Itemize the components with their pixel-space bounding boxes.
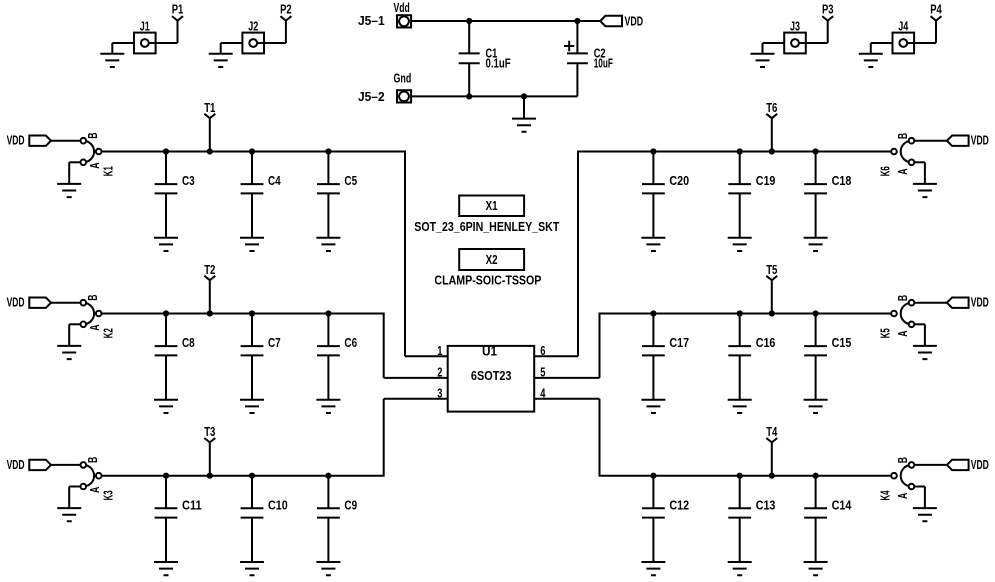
svg-text:T2: T2: [204, 263, 215, 277]
svg-text:J5–1: J5–1: [358, 14, 385, 28]
svg-text:A: A: [88, 325, 102, 331]
wire pin2: [384, 377, 448, 379]
wire: [914, 302, 947, 304]
junction: [769, 473, 775, 479]
svg-text:K5: K5: [879, 328, 893, 338]
wire bus K5: [600, 314, 892, 378]
wire Gnd return: [411, 95, 577, 97]
svg-text:C10: C10: [268, 498, 288, 512]
wire: [924, 487, 926, 508]
svg-text:A: A: [88, 487, 102, 493]
svg-text:B: B: [896, 133, 910, 139]
junction: [574, 18, 580, 24]
connector J4: [893, 20, 915, 54]
svg-text:0.1uF: 0.1uF: [486, 56, 511, 70]
ground: [57, 184, 81, 197]
wire: [762, 43, 764, 54]
ground: [804, 238, 828, 251]
connector pad J5-1: [358, 1, 411, 28]
wire: [914, 486, 925, 488]
switch K5: [879, 295, 915, 338]
junction: [466, 18, 472, 24]
svg-text:P1: P1: [172, 3, 184, 17]
svg-text:C12: C12: [669, 498, 689, 512]
svg-text:VDD: VDD: [7, 296, 25, 310]
svg-text:C3: C3: [182, 174, 195, 188]
svg-text:SOT_23_6PIN_HENLEY_SKT: SOT_23_6PIN_HENLEY_SKT: [414, 220, 559, 234]
svg-text:VDD: VDD: [971, 134, 989, 148]
wire: [871, 42, 893, 44]
svg-text:J5–2: J5–2: [358, 90, 385, 104]
junction: [163, 148, 169, 154]
test point T3: [204, 425, 215, 476]
svg-text:C8: C8: [182, 336, 195, 350]
junction: [325, 148, 331, 154]
svg-text:T5: T5: [766, 263, 777, 277]
IC U1: [448, 345, 535, 412]
wire bus K2: [102, 314, 384, 378]
wire pin5: [534, 377, 599, 379]
wire: [257, 42, 286, 44]
svg-text:C7: C7: [268, 336, 281, 350]
svg-text:K1: K1: [101, 166, 115, 176]
wire pin3: [384, 398, 448, 400]
socket X1: [459, 196, 524, 217]
wire bus K3: [102, 399, 384, 476]
svg-text:VDD: VDD: [7, 134, 25, 148]
switch K4: [879, 457, 915, 501]
VDD flag for K5: [947, 296, 989, 310]
svg-text:C13: C13: [756, 498, 776, 512]
wire: [68, 487, 70, 508]
ground: [316, 562, 340, 575]
capacitor C2 (polarized): [564, 21, 613, 96]
wire: [220, 43, 222, 54]
junction: [325, 310, 331, 316]
wire bus K6: [578, 152, 891, 357]
ground: [728, 400, 752, 413]
svg-text:C16: C16: [756, 336, 776, 350]
junction: [163, 310, 169, 316]
ground: [512, 119, 536, 132]
capacitor C16: [728, 314, 775, 400]
svg-text:A: A: [896, 169, 910, 175]
junction: [249, 473, 255, 479]
svg-text:K3: K3: [101, 490, 115, 500]
junction: [813, 310, 819, 316]
svg-text:P2: P2: [280, 3, 292, 17]
capacitor C20: [642, 152, 689, 238]
wire: [799, 42, 828, 44]
svg-text:C4: C4: [268, 174, 281, 188]
ground: [209, 54, 233, 67]
VDD flag for K1: [7, 134, 51, 148]
svg-text:C14: C14: [832, 498, 852, 512]
ground: [804, 562, 828, 575]
svg-text:B: B: [896, 295, 910, 301]
junction: [769, 148, 775, 154]
VDD flag for K3: [7, 458, 51, 472]
test point T6: [766, 101, 777, 152]
wire: [870, 43, 872, 54]
junction: [650, 473, 656, 479]
svg-text:T6: T6: [766, 101, 777, 115]
wire: [924, 324, 926, 345]
capacitor C10: [241, 476, 288, 562]
svg-text:B: B: [896, 457, 910, 463]
ground: [240, 562, 264, 575]
wire: [149, 42, 178, 44]
capacitor C17: [642, 314, 689, 400]
junction: [737, 148, 743, 154]
wire Vdd bus: [411, 20, 600, 22]
connector J2: [242, 20, 264, 54]
svg-text:J3: J3: [790, 20, 800, 34]
svg-text:6SOT23: 6SOT23: [471, 369, 512, 383]
ground: [154, 400, 178, 413]
ground: [913, 346, 937, 359]
capacitor C12: [642, 476, 689, 562]
wire: [924, 162, 926, 183]
wire: [51, 464, 81, 466]
power flag VDD: [600, 15, 643, 29]
wire: [51, 302, 81, 304]
capacitor C9: [317, 476, 357, 562]
svg-text:B: B: [86, 295, 100, 301]
connector pad J5-2: [358, 71, 411, 103]
ground: [240, 400, 264, 413]
svg-text:K4: K4: [879, 490, 893, 500]
junction: [207, 148, 213, 154]
ground: [804, 400, 828, 413]
junction: [466, 93, 472, 99]
svg-text:C18: C18: [832, 174, 852, 188]
junction: [325, 473, 331, 479]
svg-text:C9: C9: [344, 498, 357, 512]
test point P3: [822, 3, 834, 44]
test point T5: [766, 263, 777, 314]
svg-text:K2: K2: [101, 328, 115, 338]
switch K6: [879, 133, 915, 176]
VDD flag for K2: [7, 296, 51, 310]
junction: [813, 473, 819, 479]
wire: [69, 161, 80, 163]
test point T1: [204, 101, 215, 152]
ground: [154, 562, 178, 575]
ground: [913, 508, 937, 521]
wire bus K1: [102, 152, 406, 357]
svg-text:J1: J1: [140, 20, 150, 34]
ground: [641, 238, 665, 251]
wire: [523, 96, 525, 118]
test point P2: [280, 3, 292, 44]
ground: [859, 54, 883, 67]
svg-text:K6: K6: [879, 166, 893, 176]
svg-text:C17: C17: [669, 336, 689, 350]
wire bus K4: [600, 399, 892, 476]
svg-text:C15: C15: [832, 336, 852, 350]
svg-text:CLAMP-SOIC-TSSOP: CLAMP-SOIC-TSSOP: [434, 273, 541, 287]
ground: [913, 184, 937, 197]
wire: [914, 323, 925, 325]
junction: [249, 310, 255, 316]
wire: [111, 43, 113, 54]
test point P1: [172, 3, 184, 44]
capacitor C6: [317, 314, 357, 400]
junction: [737, 310, 743, 316]
svg-text:C5: C5: [344, 174, 357, 188]
test point T4: [766, 425, 777, 476]
wire: [68, 162, 70, 183]
capacitor C4: [241, 152, 281, 238]
svg-text:T1: T1: [204, 101, 215, 115]
switch K3: [81, 457, 116, 501]
ground: [751, 54, 775, 67]
switch K2: [81, 295, 116, 339]
capacitor C7: [241, 314, 281, 400]
svg-text:J4: J4: [898, 20, 908, 34]
junction: [207, 310, 213, 316]
wire pin6: [534, 355, 578, 357]
svg-text:10uF: 10uF: [594, 56, 613, 70]
svg-text:C20: C20: [669, 174, 689, 188]
VDD flag for K6: [947, 134, 989, 148]
wire: [112, 42, 134, 44]
wire: [221, 42, 243, 44]
capacitor C5: [317, 152, 357, 238]
ground: [154, 238, 178, 251]
wire: [51, 140, 81, 142]
ground: [240, 238, 264, 251]
svg-text:A: A: [88, 163, 102, 169]
svg-text:X1: X1: [486, 199, 498, 213]
junction: [249, 148, 255, 154]
junction: [207, 473, 213, 479]
wire: [763, 42, 785, 44]
ground: [316, 238, 340, 251]
wire: [907, 42, 936, 44]
svg-text:T3: T3: [204, 425, 215, 439]
svg-text:P4: P4: [930, 3, 942, 17]
svg-text:B: B: [86, 457, 100, 463]
junction: [769, 310, 775, 316]
capacitor C19: [728, 152, 775, 238]
ground: [100, 54, 124, 67]
wire: [914, 464, 947, 466]
test point T2: [204, 263, 215, 314]
capacitor C13: [728, 476, 775, 562]
junction: [813, 148, 819, 154]
capacitor C18: [804, 152, 851, 238]
svg-text:A: A: [896, 331, 910, 337]
junction: [163, 473, 169, 479]
svg-text:J2: J2: [248, 20, 258, 34]
capacitor C3: [155, 152, 195, 238]
VDD flag for K4: [947, 458, 989, 472]
ground: [728, 238, 752, 251]
ground: [316, 400, 340, 413]
junction: [737, 473, 743, 479]
svg-text:T4: T4: [766, 425, 777, 439]
wire: [69, 486, 80, 488]
junction: [521, 93, 527, 99]
junction: [650, 148, 656, 154]
svg-text:U1: U1: [482, 345, 497, 359]
svg-text:C6: C6: [344, 336, 357, 350]
svg-text:Gnd: Gnd: [394, 71, 412, 85]
svg-text:C11: C11: [182, 498, 202, 512]
svg-text:Vdd: Vdd: [394, 1, 410, 15]
connector J3: [784, 20, 806, 54]
ground: [641, 400, 665, 413]
junction: [650, 310, 656, 316]
ground: [728, 562, 752, 575]
switch K1: [81, 133, 116, 177]
wire: [914, 161, 925, 163]
wire pin1: [405, 355, 448, 357]
wire: [914, 140, 947, 142]
connector J1: [134, 20, 156, 54]
svg-text:B: B: [86, 133, 100, 139]
capacitor C11: [155, 476, 202, 562]
svg-text:C19: C19: [756, 174, 776, 188]
svg-text:X2: X2: [486, 253, 498, 267]
svg-text:P3: P3: [822, 3, 834, 17]
svg-text:A: A: [896, 493, 910, 499]
capacitor C1: [459, 21, 511, 96]
svg-text:VDD: VDD: [971, 458, 989, 472]
svg-text:VDD: VDD: [625, 15, 644, 29]
capacitor C8: [155, 314, 195, 400]
ground: [641, 562, 665, 575]
ground: [57, 346, 81, 359]
capacitor C15: [804, 314, 851, 400]
svg-text:VDD: VDD: [7, 458, 25, 472]
wire pin4: [534, 398, 599, 400]
wire: [68, 324, 70, 345]
socket X2: [459, 249, 524, 270]
capacitor C14: [804, 476, 851, 562]
test point P4: [930, 3, 942, 44]
wire: [69, 323, 80, 325]
svg-text:VDD: VDD: [971, 296, 989, 310]
ground: [57, 508, 81, 521]
